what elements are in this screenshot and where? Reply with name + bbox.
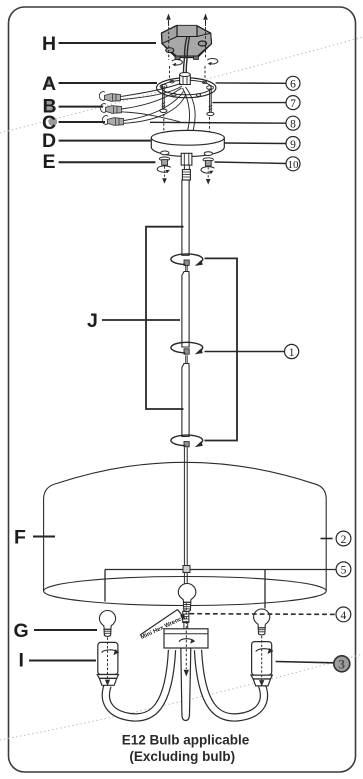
symbol 8 — [286, 116, 300, 130]
leader A — [59, 82, 157, 84]
wire bundle nut middle to bracket — [122, 88, 182, 109]
dashed screw axis right — [205, 27, 207, 59]
wires from junction box into bracket — [183, 37, 186, 73]
junction box right screw hole — [198, 41, 206, 46]
svg-text:7: 7 — [290, 98, 296, 110]
leader G — [34, 629, 97, 631]
dashed axis left candle — [107, 638, 109, 680]
leader C — [59, 121, 105, 123]
rotation arrow joint 3 — [171, 435, 203, 446]
svg-text:E: E — [43, 151, 56, 173]
svg-text:10: 10 — [288, 159, 300, 171]
bracket centre nipple — [180, 73, 191, 85]
mini hex wrench callout — [140, 610, 187, 642]
svg-text:(Excluding bulb): (Excluding bulb) — [129, 749, 235, 764]
symbol 7 — [286, 96, 300, 110]
svg-text:2: 2 — [341, 534, 347, 546]
centre hub below canopy — [181, 153, 192, 180]
canopy hole right — [204, 152, 212, 156]
drum shade F — [44, 462, 337, 608]
svg-text:8: 8 — [290, 119, 296, 131]
grey blob in C — [48, 117, 57, 126]
shade bottom rim — [44, 577, 327, 606]
mounting bracket A ring — [157, 78, 216, 98]
svg-text:3: 3 — [339, 657, 346, 672]
wires from bracket down into canopy — [186, 87, 196, 131]
dashed arrow below right nut — [207, 167, 209, 179]
svg-text:H: H — [42, 33, 56, 55]
leader 1 — [205, 351, 285, 353]
thin hanging rod — [183, 447, 185, 583]
right leader lines top — [150, 83, 286, 164]
leader 10 — [215, 162, 286, 164]
centre column — [181, 648, 191, 721]
centre bulb — [178, 583, 196, 611]
symbol 9 — [286, 137, 300, 151]
nut left under canopy — [162, 160, 168, 166]
svg-text:G: G — [14, 620, 29, 642]
symbol 2 — [336, 531, 351, 546]
rod segment 1 — [182, 180, 189, 255]
leader E — [59, 161, 156, 163]
leader 2 tick — [321, 538, 333, 540]
symbol 5 — [336, 562, 351, 577]
circle-1 bracket — [205, 258, 285, 440]
symbol 10 — [286, 157, 300, 171]
centre body block — [164, 629, 208, 648]
rotation arrow joint 2 — [171, 342, 203, 353]
watermark dotted line lower — [0, 654, 363, 740]
rotation arrow left nut — [157, 166, 171, 172]
dashed axis screw left to canopy — [163, 114, 165, 150]
rod segment 3 — [182, 364, 189, 437]
svg-text:E12 Bulb applicable: E12 Bulb applicable — [122, 733, 250, 748]
left bulb G — [99, 610, 115, 636]
leader H — [59, 42, 156, 44]
dashed arrow below left nut — [164, 167, 166, 179]
symbol 4 — [336, 607, 351, 622]
rotation arrow below box right — [207, 59, 218, 64]
svg-text:1: 1 — [289, 347, 295, 359]
svg-text:I: I — [19, 650, 24, 672]
svg-text:A: A — [42, 73, 56, 95]
svg-text:5: 5 — [341, 565, 347, 577]
threaded stem centre — [183, 612, 189, 629]
nut right under canopy — [205, 160, 211, 166]
canopy hole left — [161, 151, 169, 155]
svg-text:9: 9 — [290, 139, 296, 151]
dashed axis screw right to canopy — [209, 117, 211, 151]
wire nut middle — [106, 106, 122, 114]
symbol 3 (grey) — [334, 656, 350, 672]
chandelier arms — [106, 650, 264, 717]
leader F — [33, 536, 55, 538]
rotation arrow right nut — [201, 167, 215, 173]
leader 4 dashed — [190, 613, 336, 616]
wire bundle nut top to bracket — [121, 84, 181, 97]
wire nut top — [105, 94, 121, 102]
washer left under canopy — [159, 157, 169, 161]
leader 9 — [224, 142, 286, 145]
screw arrow up-left above junction box — [166, 14, 171, 27]
joint 1 coupler — [184, 260, 189, 265]
mounting screw left (under bracket) — [160, 86, 167, 113]
left arm — [106, 650, 172, 717]
leader 7 — [212, 102, 286, 104]
leader 3 — [276, 662, 334, 663]
junction box H body — [162, 26, 212, 60]
symbol 1 — [285, 344, 299, 358]
wire crossing to leader 8 — [122, 112, 181, 122]
watermark dotted line upper — [0, 37, 363, 133]
right candle sleeve — [251, 642, 272, 686]
leader 8 — [150, 121, 286, 124]
left candle sleeve I — [97, 642, 118, 685]
rotation arrow left sleeve — [102, 650, 118, 653]
junction box left screw hole — [166, 48, 174, 53]
rod assembly — [171, 180, 203, 584]
J bracket — [102, 227, 184, 409]
joint 3 coupler — [184, 442, 189, 447]
rotation arrow below box left — [172, 60, 183, 65]
svg-text:6: 6 — [290, 79, 296, 91]
rod segment 2 — [182, 272, 189, 348]
right bulb — [254, 609, 270, 635]
leader J — [102, 319, 180, 321]
svg-text:4: 4 — [341, 610, 347, 622]
svg-text:F: F — [14, 527, 26, 549]
twist arrow top nut — [99, 92, 104, 101]
joint 2 coupler — [184, 349, 189, 354]
wire bundle nut bottom to bracket — [124, 92, 184, 121]
screw arrow up-right above junction box — [203, 14, 208, 27]
rotation arrow right sleeve — [256, 649, 272, 652]
symbol 6 — [286, 76, 300, 90]
leader D — [59, 140, 151, 142]
leader B — [59, 106, 103, 108]
svg-text:J: J — [87, 310, 98, 332]
dashed axis right candle — [261, 636, 263, 680]
leader I — [29, 660, 96, 662]
rotation arrow in body — [179, 639, 194, 642]
fitter hub on rod — [183, 566, 190, 573]
svg-text:D: D — [42, 130, 56, 152]
wire nut bottom — [108, 118, 124, 126]
rotation arrow joint 1 — [171, 254, 203, 265]
grey counters of B — [47, 101, 54, 105]
shade fitter bar — [105, 569, 336, 571]
twist arrow bottom nut — [102, 116, 107, 125]
dashed screw axis left — [168, 27, 170, 60]
left leader lines — [29, 43, 157, 661]
dashed axis through body — [185, 603, 187, 669]
canopy D — [151, 130, 224, 184]
leader 6 — [216, 82, 286, 84]
mounting screw right (under bracket) — [207, 89, 214, 116]
washer right under canopy — [203, 158, 213, 162]
right arm — [198, 650, 264, 717]
twist arrow middle nut — [100, 104, 105, 113]
grey counter of A — [46, 77, 54, 84]
